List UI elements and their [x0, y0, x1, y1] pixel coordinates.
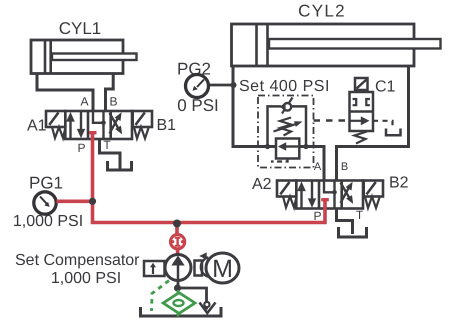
- svg-text:CYL1: CYL1: [59, 19, 102, 38]
- svg-text:B2: B2: [389, 175, 409, 192]
- svg-text:Set Compensator: Set Compensator: [15, 252, 140, 269]
- svg-text:1,000 PSI: 1,000 PSI: [13, 213, 83, 230]
- svg-text:M: M: [212, 255, 233, 283]
- svg-text:A: A: [80, 95, 88, 109]
- svg-text:A: A: [314, 161, 322, 173]
- svg-text:B: B: [109, 95, 117, 109]
- svg-text:B: B: [341, 161, 348, 173]
- svg-text:P: P: [77, 141, 85, 155]
- svg-text:PG1: PG1: [29, 174, 63, 193]
- svg-text:T: T: [356, 208, 364, 222]
- svg-text:A2: A2: [252, 176, 272, 193]
- svg-text:1,000 PSI: 1,000 PSI: [51, 270, 121, 287]
- svg-text:C1: C1: [375, 79, 396, 96]
- svg-text:CYL2: CYL2: [298, 2, 346, 21]
- svg-text:A1: A1: [27, 118, 47, 135]
- svg-text:B1: B1: [157, 117, 177, 134]
- svg-text:Set 400 PSI: Set 400 PSI: [239, 78, 330, 95]
- svg-text:T: T: [103, 138, 111, 152]
